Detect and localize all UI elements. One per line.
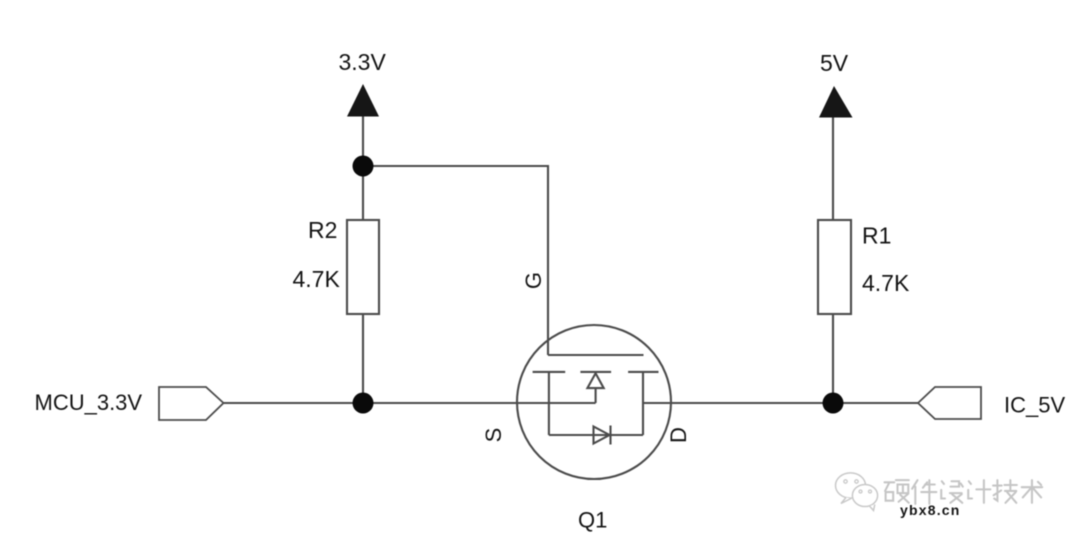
svg-text:G: G: [521, 272, 546, 289]
svg-text:D: D: [666, 427, 691, 443]
svg-text:MCU_3.3V: MCU_3.3V: [35, 390, 143, 415]
svg-text:R2: R2: [308, 217, 337, 243]
svg-text:4.7K: 4.7K: [293, 266, 341, 292]
svg-text:IC_5V: IC_5V: [1004, 393, 1065, 418]
svg-text:5V: 5V: [820, 50, 849, 76]
svg-text:R1: R1: [862, 223, 891, 249]
svg-text:4.7K: 4.7K: [862, 270, 910, 296]
svg-text:ybx8.cn: ybx8.cn: [900, 502, 961, 518]
svg-text:S: S: [481, 428, 506, 443]
svg-text:Q1: Q1: [578, 508, 607, 533]
svg-text:3.3V: 3.3V: [339, 49, 387, 75]
